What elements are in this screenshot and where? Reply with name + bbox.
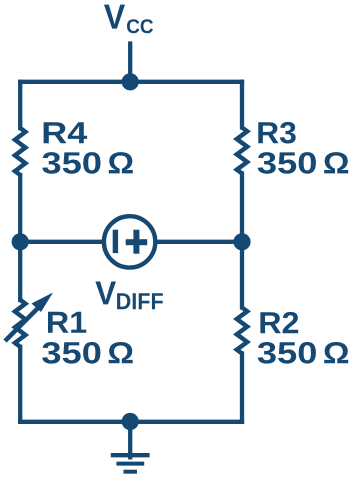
label R2: [260, 312, 298, 333]
wire left lower segment: [18, 347, 22, 422]
resistor R2: [237, 308, 247, 354]
ground: [111, 455, 150, 472]
R1 wiper arrow head: [32, 293, 54, 313]
wire Vcc stub: [128, 44, 132, 84]
current source plus vertical bar: [133, 230, 139, 254]
node Vcc junction: [122, 73, 139, 90]
resistor R4: [15, 128, 25, 175]
label R4: [44, 122, 87, 143]
wire right upper segment: [240, 82, 244, 128]
wire left upper segment: [18, 82, 22, 128]
label Vdiff: [95, 281, 163, 309]
wire middle rail: [20, 240, 242, 244]
current source plus horizontal bar: [126, 239, 148, 245]
node ground junction: [122, 413, 139, 430]
label Vcc: [104, 5, 153, 34]
wire ground stub: [128, 422, 132, 458]
label R3: [258, 122, 295, 144]
resistor R3: [237, 128, 247, 174]
R1 wiper arrow shaft: [5, 304, 42, 341]
current source U1 circle: [104, 216, 155, 267]
wire right lower segment: [240, 354, 244, 422]
wire top rail: [20, 80, 242, 84]
wire right middle segment: [240, 174, 244, 308]
current source I bar: [113, 230, 118, 253]
wire bottom rail: [20, 420, 242, 424]
value R2 350 ohm: [258, 342, 348, 364]
value R4 350 ohm: [42, 152, 132, 174]
node left bridge junction: [12, 233, 29, 250]
resistor R1 (variable): [15, 300, 25, 347]
value R3 350 ohm: [258, 152, 348, 174]
wire left middle segment: [18, 175, 22, 300]
node right bridge junction: [233, 233, 250, 250]
label R1: [48, 312, 86, 333]
value R1 350 ohm: [42, 342, 132, 364]
